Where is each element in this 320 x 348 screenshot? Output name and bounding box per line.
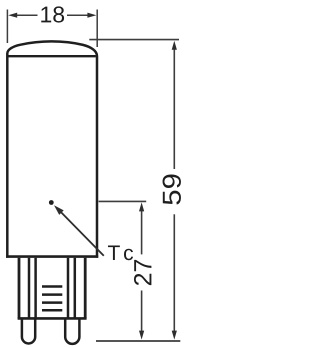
Tc leader line with arrowhead	[61, 212, 104, 256]
Tc point dot	[49, 200, 54, 205]
dim 18: right extension line	[96, 10, 98, 48]
dim 18: left extension line	[6, 10, 8, 44]
base rib 1	[42, 285, 62, 288]
Tc label	[108, 246, 133, 261]
base pin-channel line right A	[67, 258, 70, 319]
lamp bottom edge	[6, 255, 98, 258]
dim 59: label (rotated)	[163, 174, 181, 204]
dim 27: extension line from Tc level	[99, 200, 147, 202]
base bottom edge	[18, 317, 87, 320]
pin loop right	[65, 318, 79, 344]
dim 18: right arrow + shaft	[67, 14, 91, 16]
dim 27: vertical line upper segment with up arrow	[141, 208, 143, 254]
lamp body outline (G9 capsule)	[7, 41, 97, 257]
dim 59: vertical line lower segment with down arrow	[173, 214, 175, 333]
base outer left wall	[18, 258, 21, 319]
dim 27: vertical line lower segment with down arrow	[141, 291, 143, 334]
dim 59: top extension line	[89, 39, 179, 41]
dim 18: left arrow + shaft	[14, 14, 38, 16]
dim 18: label	[41, 6, 64, 22]
base pin-channel line right B	[74, 258, 77, 319]
base pin-channel line left A	[28, 258, 31, 319]
pin loop left	[22, 318, 35, 343]
dim 27: label (rotated)	[134, 260, 151, 285]
dim 59: vertical line upper segment with up arrow	[173, 47, 175, 169]
bottom baseline	[96, 340, 180, 342]
base outer right wall	[84, 258, 87, 319]
base pin-channel line left B	[34, 258, 37, 319]
base rib 4	[42, 309, 62, 312]
base rib 3	[42, 301, 62, 304]
lamp shoulder line	[8, 55, 96, 57]
base rib 2	[42, 293, 62, 296]
